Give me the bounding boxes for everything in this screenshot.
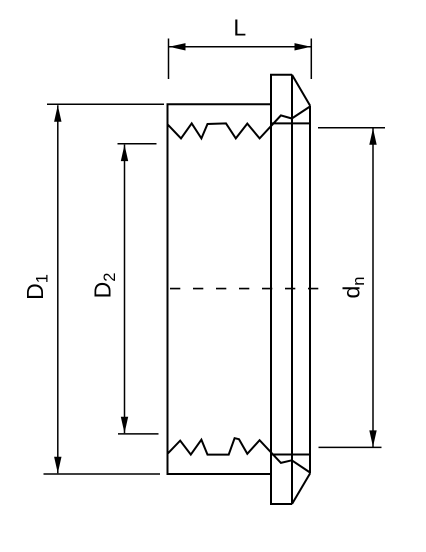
dn arrow top [369, 128, 376, 145]
D1 extension line bottom [44, 473, 161, 475]
L dimension line [169, 46, 311, 48]
top cone seat [292, 107, 310, 119]
dn arrow bottom [369, 430, 376, 447]
flange left face [270, 75, 272, 504]
flange bottom edge [270, 503, 292, 505]
D1 extension line top [47, 103, 164, 105]
dn extension line bottom [319, 446, 382, 448]
bore top line [271, 122, 310, 124]
L extension line left [168, 39, 170, 80]
D2 extension line bottom [118, 433, 159, 435]
bottom chamfer [292, 474, 310, 505]
svg-text:L: L [233, 14, 246, 40]
flange top edge [270, 74, 292, 76]
D2 arrow bottom [121, 417, 128, 434]
D2 arrow top [121, 145, 128, 162]
bore bottom line [271, 454, 310, 456]
flange right edge [309, 106, 311, 474]
bottom thread zigzag [168, 438, 292, 463]
D1 arrow bottom [54, 457, 61, 474]
D1 arrow top [54, 105, 61, 122]
L arrow right [295, 43, 312, 50]
top chamfer [292, 75, 310, 106]
centerline [170, 288, 318, 290]
dn extension line top [318, 127, 385, 129]
top thread zigzag [168, 115, 292, 138]
body bottom edge [167, 473, 272, 475]
D1 dimension line [57, 105, 59, 473]
flange inner face [291, 75, 293, 504]
body top edge [167, 103, 272, 105]
bottom cone seat [292, 460, 310, 472]
L extension line right [310, 39, 312, 80]
dn dimension line [372, 128, 374, 447]
D2 dimension line [124, 145, 126, 434]
L arrow left [169, 43, 186, 50]
body left edge [167, 104, 169, 474]
D2 extension line top [118, 143, 157, 145]
